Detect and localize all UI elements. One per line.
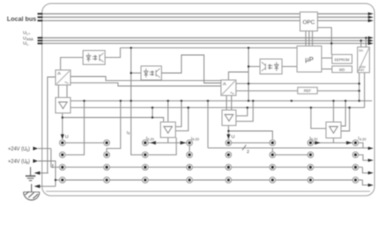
svg-text:U: U xyxy=(65,134,69,140)
svg-text:I0-20: I0-20 xyxy=(146,136,154,142)
svg-text:OPC: OPC xyxy=(303,20,315,26)
svg-text:I4-20: I4-20 xyxy=(358,136,366,142)
svg-text:EEPROM: EEPROM xyxy=(335,58,350,62)
svg-text:L+: L+ xyxy=(27,32,31,36)
svg-text:Local bus: Local bus xyxy=(7,16,37,23)
svg-text:REF: REF xyxy=(304,89,312,93)
svg-text:): ) xyxy=(28,146,30,152)
svg-text:I0-20: I0-20 xyxy=(310,136,318,142)
svg-text:µP: µP xyxy=(305,57,314,64)
svg-text:ANA: ANA xyxy=(27,37,35,41)
svg-text:+5V: +5V xyxy=(359,68,364,72)
svg-text:+24V (U: +24V (U xyxy=(8,146,27,152)
svg-text:2: 2 xyxy=(247,149,250,155)
svg-text:+24V (U: +24V (U xyxy=(8,159,27,165)
svg-text:I4-20: I4-20 xyxy=(191,136,199,142)
svg-text:WD: WD xyxy=(339,68,345,72)
svg-text:I4: I4 xyxy=(127,130,130,136)
svg-text:): ) xyxy=(28,159,30,165)
svg-text:U: U xyxy=(231,134,235,140)
svg-text:L-: L- xyxy=(27,43,30,47)
